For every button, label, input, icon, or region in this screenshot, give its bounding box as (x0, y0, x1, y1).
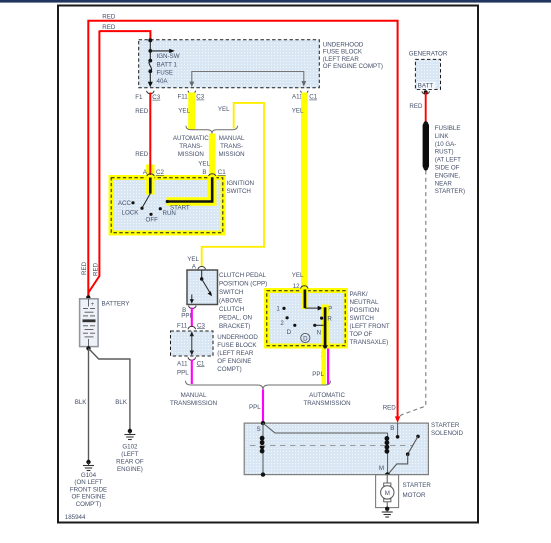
label MANUAL TRANSMISSION (bottom) (170, 392, 217, 407)
svg-text:RED: RED (102, 24, 116, 31)
label AUTOMATIC TRANSMISSION (top) (173, 135, 209, 158)
fuse IGN-SW BATT 1 40A (148, 59, 152, 74)
svg-text:IGN-SW: IGN-SW (157, 53, 180, 60)
svg-text:A11: A11 (177, 360, 188, 367)
symbol circled D (301, 333, 310, 342)
clutch switch contacts (190, 270, 212, 304)
label RED (inner loop, top) (102, 24, 116, 31)
label GENERATOR (409, 50, 448, 57)
svg-text:STARTER: STARTER (431, 422, 460, 429)
wire BLK battery to G102 (89, 348, 130, 430)
svg-text:ENGINE,: ENGINE, (435, 172, 461, 179)
svg-text:STARTER): STARTER) (435, 188, 465, 195)
label PPL (automatic branch) (312, 371, 324, 378)
svg-text:BATTERY: BATTERY (102, 300, 130, 307)
svg-text:RED: RED (135, 151, 149, 158)
terminal B/C1 (ignition) (202, 169, 226, 177)
wire PPL clutch to fuse block 2 (191, 308, 193, 328)
node solenoid M (379, 465, 390, 477)
svg-text:POSITION (CPP): POSITION (CPP) (219, 281, 267, 288)
node solenoid S (256, 421, 265, 433)
svg-text:PPL: PPL (312, 371, 324, 378)
svg-text:TRANSMISSION: TRANSMISSION (303, 400, 350, 407)
svg-text:TRANS-: TRANS- (179, 143, 202, 150)
svg-text:N: N (317, 330, 321, 337)
linkage dashed (plunger) (250, 445, 413, 447)
svg-text:SWITCH: SWITCH (350, 315, 374, 322)
svg-text:YEL: YEL (178, 108, 190, 115)
label RED above solenoid B (383, 405, 397, 412)
label BATT terminal (417, 82, 436, 90)
highlight around red wire at ignition A (146, 165, 154, 177)
starter motor symbol (381, 475, 394, 509)
label YEL above clutch switch (187, 256, 199, 263)
svg-text:BRACKET): BRACKET) (219, 323, 250, 330)
svg-text:C1: C1 (218, 169, 226, 176)
svg-text:R: R (327, 315, 332, 322)
svg-text:FUSE BLOCK: FUSE BLOCK (323, 49, 363, 56)
label YEL above ignition B (198, 160, 210, 167)
svg-text:REAR OF: REAR OF (116, 458, 144, 465)
svg-text:FUSE BLOCK: FUSE BLOCK (217, 342, 257, 349)
wire YEL thin manual branch (around ignition switch to clutch switch) (202, 103, 264, 267)
svg-text:M: M (385, 490, 390, 497)
svg-text:COMP'T): COMP'T) (76, 501, 102, 508)
svg-text:RED: RED (135, 108, 149, 115)
label AUTOMATIC TRANSMISSION (bottom) (303, 392, 350, 407)
svg-text:ENGINE): ENGINE) (117, 466, 143, 473)
svg-text:YEL: YEL (187, 256, 199, 263)
svg-text:UNDERHOOD: UNDERHOOD (323, 41, 364, 48)
wire battery-to-solenoid RED (outer loop) (88, 21, 397, 417)
svg-text:BLK: BLK (75, 399, 88, 406)
wire YEL A11 to park/neutral switch (thick) (301, 93, 308, 289)
starter solenoid box (244, 423, 428, 475)
svg-text:(LEFT FRONT: (LEFT FRONT (350, 323, 390, 330)
generator box (415, 59, 440, 89)
wire P contact to pin 1 (thick black) (324, 307, 327, 346)
svg-text:PEDAL, ON: PEDAL, ON (219, 315, 252, 322)
svg-text:G104: G104 (81, 472, 97, 479)
brace transmission split (top) (186, 126, 238, 134)
svg-text:OF ENGINE: OF ENGINE (217, 358, 251, 365)
svg-text:F11: F11 (178, 94, 189, 101)
wire YEL brace to ignition switch B (thick) (209, 134, 216, 177)
svg-text:RED: RED (409, 103, 423, 110)
svg-text:BLK: BLK (115, 399, 128, 406)
battery (80, 299, 99, 347)
label YEL above P/N switch (292, 272, 304, 279)
highlight inside ignition B path (167, 176, 213, 202)
svg-text:TRANSAXLE): TRANSAXLE) (350, 339, 389, 346)
svg-text:START: START (170, 204, 190, 211)
label PPL below clutch B (181, 312, 193, 319)
node 1 position (276, 306, 285, 313)
brace transmission merge (bottom) (186, 381, 331, 390)
svg-text:1: 1 (276, 306, 280, 313)
wire ignition B internal to START (thick black L) (166, 177, 213, 203)
svg-text:(LEFT REAR: (LEFT REAR (217, 350, 254, 357)
svg-text:OFF: OFF (146, 217, 159, 224)
arrow feed to other circuits (150, 49, 175, 53)
svg-text:MISSION: MISSION (178, 151, 204, 158)
wire battery-to-fuseblock RED (inner loop) (89, 31, 151, 297)
terminal F1/C3 (135, 91, 161, 101)
label BLK (left) (75, 399, 88, 406)
switch arm A to LOCK (142, 194, 150, 209)
svg-text:+: + (91, 301, 95, 308)
node N position with link (313, 324, 323, 337)
label RED (generator) (409, 103, 423, 110)
label PPL below block 2 (177, 369, 189, 376)
node ACC (118, 200, 135, 207)
svg-text:CLUTCH PEDAL: CLUTCH PEDAL (219, 272, 267, 279)
svg-text:D: D (303, 335, 308, 342)
svg-text:CLUTCH: CLUTCH (219, 306, 244, 313)
label figure number 185944 (65, 514, 86, 521)
svg-text:OF ENGINE: OF ENGINE (71, 494, 105, 501)
wire dashed fusible link to solenoid B (399, 171, 426, 418)
svg-text:SWITCH: SWITCH (219, 289, 243, 296)
page top navy bar (0, 0, 551, 3)
svg-text:C1: C1 (197, 360, 205, 367)
wire RED generator to fusible link (425, 92, 427, 123)
terminal F11/C3 (block 2) (177, 322, 205, 329)
svg-text:ACC: ACC (118, 200, 132, 207)
svg-text:B: B (202, 169, 206, 176)
svg-text:G102: G102 (122, 444, 138, 451)
label RED under F1 (135, 108, 149, 115)
svg-text:AUTOMATIC: AUTOMATIC (309, 392, 345, 399)
svg-text:(ABOVE: (ABOVE (219, 298, 242, 305)
label STARTER SOLENOID (431, 422, 464, 437)
label BATTERY (102, 300, 130, 307)
svg-text:POSITION: POSITION (350, 307, 380, 314)
svg-text:C3: C3 (197, 322, 205, 329)
svg-text:D: D (287, 329, 292, 336)
svg-text:FRONT SIDE: FRONT SIDE (70, 486, 107, 493)
node fuse-block feed junction (148, 38, 152, 42)
svg-text:C3: C3 (196, 94, 204, 101)
label YEL under A11 (292, 108, 304, 115)
label YEL under F11 (178, 108, 190, 115)
wire ignition A internal (thick black) (149, 178, 152, 194)
svg-text:TRANSMISSION: TRANSMISSION (170, 400, 217, 407)
highlight pin 12 internal (302, 288, 309, 309)
label fuse value (157, 53, 180, 85)
svg-text:MANUAL: MANUAL (219, 135, 245, 142)
svg-text:B: B (390, 425, 394, 432)
label PPL above solenoid S (249, 404, 261, 411)
svg-text:NEAR: NEAR (435, 180, 453, 187)
svg-text:F1: F1 (135, 94, 143, 101)
svg-text:MANUAL: MANUAL (181, 392, 207, 399)
svg-text:YEL: YEL (292, 108, 304, 115)
terminal generator BATT (422, 90, 429, 94)
svg-text:12: 12 (293, 283, 300, 290)
label CLUTCH PEDAL POSITION (CPP) SWITCH (219, 272, 267, 330)
svg-text:RED: RED (383, 405, 397, 412)
node D position (287, 324, 297, 336)
svg-text:MISSION: MISSION (219, 151, 245, 158)
svg-text:AUTOMATIC: AUTOMATIC (173, 135, 209, 142)
svg-text:M: M (379, 465, 384, 472)
svg-text:C2: C2 (156, 169, 164, 176)
svg-text:C1: C1 (309, 94, 317, 101)
svg-text:40A: 40A (157, 78, 169, 85)
svg-text:(LEFT: (LEFT (121, 451, 138, 458)
svg-text:(LEFT REAR: (LEFT REAR (323, 56, 360, 63)
label IGNITION SWITCH (227, 180, 255, 195)
svg-text:UNDERHOOD: UNDERHOOD (217, 334, 258, 341)
contact B fixed (390, 423, 399, 439)
node OFF (146, 213, 159, 224)
label PARK/NEUTRAL POSITION SWITCH (350, 291, 390, 346)
svg-text:BATT: BATT (418, 83, 434, 90)
svg-text:C3: C3 (152, 94, 160, 101)
clutch pedal position switch box (187, 270, 218, 305)
svg-text:(AT LEFT: (AT LEFT (435, 157, 461, 164)
terminal 12 (P/N switch) (293, 283, 308, 290)
ground starter motor (382, 507, 393, 517)
svg-text:LOCK: LOCK (122, 210, 140, 217)
svg-text:YEL: YEL (218, 106, 230, 113)
node RUN (159, 207, 176, 217)
wire internal bus F11-A11 (gray) (189, 72, 306, 88)
svg-text:FUSIBLE: FUSIBLE (435, 125, 461, 132)
label YEL (manual branch) (218, 106, 230, 113)
highlight inside ignition A path (146, 176, 154, 195)
underhood fuse block 2 label (217, 334, 258, 373)
svg-text:185944: 185944 (65, 514, 86, 521)
label START (170, 204, 190, 211)
starter motor box (376, 475, 399, 508)
wire YEL F11 to brace (thick) (188, 93, 195, 131)
label RED (outer loop, top) (102, 14, 116, 21)
svg-text:PARK/: PARK/ (350, 291, 368, 298)
svg-text:GENERATOR: GENERATOR (409, 50, 448, 57)
wire PPL block2 to brace (manual) (191, 360, 193, 385)
svg-text:S: S (256, 426, 260, 433)
terminal B (clutch switch, bottom) (182, 306, 196, 314)
svg-text:BATT 1: BATT 1 (157, 61, 178, 68)
label G102 (116, 444, 144, 473)
ignition switch box (highlighted) (109, 175, 226, 236)
ground G102 (124, 429, 135, 440)
node R position (320, 315, 332, 322)
wire fuse output to F1 (internal, with down arrow) (148, 71, 153, 87)
node battery positive junction (86, 295, 90, 299)
svg-text:SIDE OF: SIDE OF (435, 165, 460, 172)
wire pin 12 internal (thick black) (304, 290, 307, 309)
diagram border frame (58, 6, 478, 523)
svg-text:(ON LEFT: (ON LEFT (74, 479, 102, 486)
svg-text:YEL: YEL (198, 160, 210, 167)
svg-text:STARTER: STARTER (403, 482, 432, 489)
svg-text:TOP OF: TOP OF (350, 331, 373, 338)
wire RED F1 to ignition switch A (149, 93, 151, 177)
svg-text:YEL: YEL (292, 272, 304, 279)
label STARTER MOTOR (403, 482, 432, 499)
coil hold-in (to M) (385, 433, 390, 475)
wire fuse input (internal) (149, 40, 151, 60)
node branch to other circuits (148, 49, 152, 53)
underhood fuse block 1 box (139, 40, 320, 88)
svg-text:OF ENGINE COMPT): OF ENGINE COMPT) (323, 63, 383, 70)
svg-text:PPL: PPL (249, 404, 261, 411)
terminal 1 exit (P/N switch) (321, 345, 328, 358)
svg-text:COMPT): COMPT) (217, 366, 241, 373)
terminal A11/C1 (top block) (292, 91, 318, 101)
label RED (vertical, wire 1) (81, 261, 88, 275)
label BLK (right) (115, 399, 128, 406)
node LOCK (122, 207, 144, 217)
label G104 (70, 472, 107, 508)
underhood fuse block 1 label (323, 41, 383, 70)
svg-text:RUST): RUST) (435, 149, 454, 156)
arrow RED into solenoid B (395, 416, 400, 423)
svg-text:RED: RED (92, 262, 99, 276)
svg-text:MOTOR: MOTOR (403, 492, 426, 499)
terminal A/C2 (ignition) (143, 169, 165, 177)
underhood fuse block 2 box (171, 331, 214, 356)
svg-text:PPL: PPL (177, 369, 189, 376)
svg-text:IGNITION: IGNITION (227, 180, 255, 187)
svg-text:FUSE: FUSE (157, 70, 174, 77)
svg-text:NEUTRAL: NEUTRAL (350, 299, 379, 306)
node battery negative junction (86, 346, 90, 350)
fusible link (423, 121, 429, 170)
switch arm to P contact (arrow) (305, 306, 332, 313)
label FUSIBLE LINK (435, 125, 465, 195)
wire YEL+PPL pin1 to brace (automatic) (321, 349, 328, 386)
label MANUAL TRANSMISSION (top) (219, 135, 246, 158)
wire BLK battery to G104 (88, 348, 90, 461)
terminal A (clutch switch) (192, 264, 206, 271)
terminal A11/C1 (block 2) (177, 357, 205, 367)
label RED above ignition A (135, 151, 149, 158)
terminal F11/C3 (top block) (178, 91, 205, 101)
svg-text:F11: F11 (177, 322, 188, 329)
highlight pin 1 internal lower (321, 305, 328, 349)
ground G104 (83, 460, 94, 471)
contact arm (movable) (388, 435, 420, 475)
wire pass-through (block 2 internal) (190, 331, 194, 355)
label RED (vertical, wire 2) (92, 262, 99, 276)
svg-text:(10 GA-: (10 GA- (435, 141, 457, 148)
svg-text:TRANS-: TRANS- (220, 143, 243, 150)
park/neutral position switch box (highlighted) (264, 288, 348, 349)
wire S to hold-in coil (263, 423, 388, 433)
node 2 position (280, 316, 288, 327)
svg-text:SWITCH: SWITCH (227, 188, 251, 195)
wire PPL brace to solenoid S (262, 389, 264, 422)
svg-text:2: 2 (280, 320, 284, 327)
coil pull-in (S to case) (260, 423, 265, 477)
svg-text:RED: RED (81, 261, 88, 275)
svg-text:SOLENOID: SOLENOID (431, 430, 464, 437)
svg-text:LINK: LINK (435, 133, 450, 140)
svg-text:RED: RED (102, 14, 116, 21)
